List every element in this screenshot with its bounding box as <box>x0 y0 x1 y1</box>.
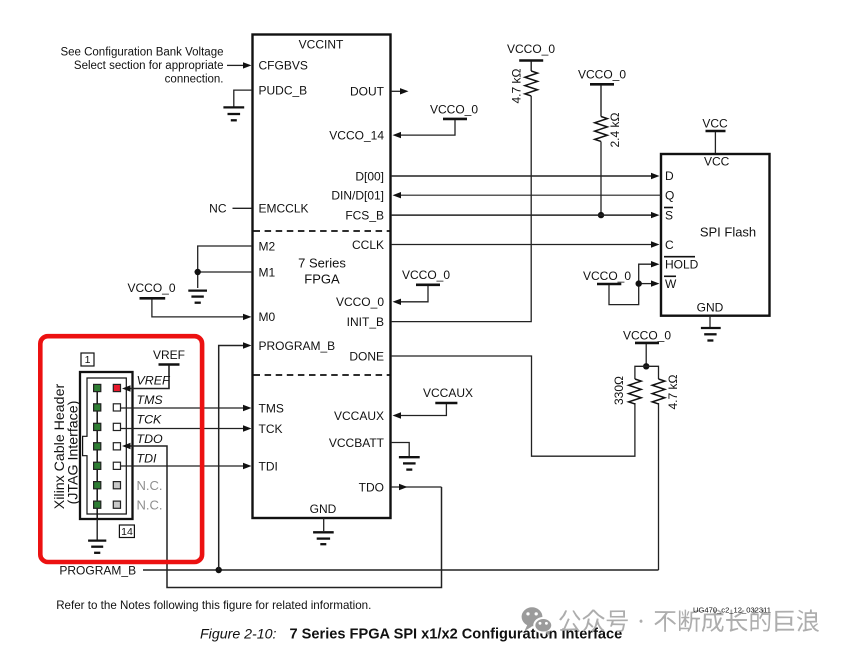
svg-text:S: S <box>665 208 673 222</box>
SPI Flash HOLD pin overbar <box>664 256 695 258</box>
JTAG italic labels <box>137 374 171 466</box>
wire DONE to 330 ohm resistor <box>391 356 635 456</box>
svg-text:VCC: VCC <box>702 116 728 130</box>
svg-text:VCCAUX: VCCAUX <box>334 409 384 423</box>
wire FCS_B to flash S <box>391 214 652 216</box>
svg-text:2.4 kΩ: 2.4 kΩ <box>608 112 622 147</box>
svg-text:C: C <box>665 238 674 252</box>
svg-text:VCCAUX: VCCAUX <box>423 386 473 400</box>
svg-text:connection.: connection. <box>165 74 224 86</box>
svg-text:See Configuration Bank Voltage: See Configuration Bank Voltage <box>60 46 223 58</box>
wire VCCO_0 to M0 pin <box>152 300 243 317</box>
junction PROGRAM_B <box>216 567 222 573</box>
wire TCK to FPGA <box>121 428 244 430</box>
watermark WeChat icon <box>522 607 553 636</box>
wire R1 down to INIT_B <box>391 96 531 322</box>
pin 14 marker box <box>119 525 134 538</box>
svg-text:UG470_c2_12_032311: UG470_c2_12_032311 <box>693 606 771 615</box>
svg-text:VCCO_0: VCCO_0 <box>507 42 555 56</box>
wire VCCO_0 to VCCO_14 pin <box>399 120 455 135</box>
wire TDO down/left/up to header <box>129 446 442 588</box>
wire CFGBVS arrow <box>227 64 243 66</box>
svg-text:TDI: TDI <box>259 460 278 474</box>
JTAG header inner outline with key notch <box>83 378 127 514</box>
ground at M1/M2 <box>188 291 207 303</box>
svg-text:VCC: VCC <box>704 155 730 169</box>
wire TMS to FPGA <box>121 407 244 409</box>
red JTAG highlight box <box>40 336 202 562</box>
JTAG pin TMS square <box>113 404 120 411</box>
svg-text:PROGRAM_B: PROGRAM_B <box>259 339 336 353</box>
watermark text 公众号·不断成长的巨浪 <box>559 609 819 632</box>
resistor R4 4.7 kOhm (PROGRAM_B pull-up) <box>652 379 665 404</box>
svg-text:4.7 kΩ: 4.7 kΩ <box>510 68 524 103</box>
junction W wire <box>636 280 642 286</box>
FPGA labels <box>259 38 385 516</box>
svg-text:1: 1 <box>85 354 91 366</box>
wire M2 <box>198 246 252 288</box>
svg-text:VCCO_0: VCCO_0 <box>430 102 478 116</box>
svg-text:D[00]: D[00] <box>355 169 384 183</box>
svg-text:VCCO_14: VCCO_14 <box>329 128 384 142</box>
wire PUDC_B to ground <box>234 90 252 106</box>
ground at flash <box>701 328 721 341</box>
SPI Flash U2 block outline <box>661 154 770 316</box>
svg-text:TCK: TCK <box>259 422 283 436</box>
svg-text:CCLK: CCLK <box>352 238 384 252</box>
wire DIN/D[01] from flash Q <box>399 194 661 196</box>
SPI Flash W pin overbar <box>664 275 676 277</box>
svg-text:TMS: TMS <box>137 393 164 407</box>
wire VCC stem <box>714 132 716 153</box>
ground at PUDC_B <box>223 107 244 120</box>
svg-text:M1: M1 <box>259 265 276 279</box>
FPGA U1 block outline <box>253 35 391 519</box>
svg-text:14: 14 <box>121 526 133 538</box>
svg-text:VCCINT: VCCINT <box>299 38 344 52</box>
resistor R3 330 Ohm (DONE pull-up) <box>629 379 642 404</box>
wire junction up to PROGRAM_B pin <box>219 346 243 571</box>
ground at VCCBATT <box>399 457 420 469</box>
svg-text:PROGRAM_B: PROGRAM_B <box>59 564 136 578</box>
wire FPGA GND stem <box>323 518 325 531</box>
svg-text:VCCO_0: VCCO_0 <box>336 295 384 309</box>
junction pull-up pair <box>643 363 649 369</box>
JTAG left column green pins <box>94 384 101 508</box>
svg-text:DONE: DONE <box>349 349 384 363</box>
svg-text:Select section for appropriate: Select section for appropriate <box>74 60 224 72</box>
svg-text:FCS_B: FCS_B <box>345 209 384 223</box>
wire VREF to red pin <box>129 366 169 389</box>
svg-text:VREF: VREF <box>137 374 171 388</box>
wire flash GND stem <box>709 316 711 327</box>
JTAG header outer outline <box>80 372 133 519</box>
JTAG pin VREF (red) <box>113 384 120 391</box>
svg-text:7 Series: 7 Series <box>298 255 346 270</box>
svg-text:GND: GND <box>310 502 337 516</box>
wire W branch <box>639 283 652 285</box>
wire VCCBATT to ground <box>391 443 409 457</box>
wire TDI to FPGA <box>121 465 244 467</box>
svg-text:D: D <box>665 169 674 183</box>
svg-text:N.C.: N.C. <box>137 478 163 493</box>
ground at JTAG header <box>88 541 106 553</box>
svg-text:PUDC_B: PUDC_B <box>259 84 308 98</box>
wire VCCO_0 stem to junction <box>645 344 647 366</box>
svg-text:TDO: TDO <box>359 480 384 494</box>
svg-text:W: W <box>665 277 677 291</box>
JTAG header ground stem <box>96 519 98 540</box>
svg-text:CFGBVS: CFGBVS <box>259 59 308 73</box>
wire CCLK to flash C <box>391 244 652 246</box>
wire VCCO_0 to W and HOLD <box>609 264 652 304</box>
svg-text:VREF: VREF <box>153 348 185 362</box>
svg-text:Refer to the Notes following t: Refer to the Notes following this figure… <box>56 599 371 612</box>
svg-text:EMCCLK: EMCCLK <box>259 202 309 216</box>
wire DOUT output arrow <box>391 90 401 92</box>
JTAG pin TCK square <box>113 423 120 430</box>
wire VCCO_0 into pin <box>399 286 428 302</box>
svg-text:VCCO_0: VCCO_0 <box>583 269 631 283</box>
svg-text:INIT_B: INIT_B <box>347 315 384 329</box>
svg-text:HOLD: HOLD <box>665 257 699 271</box>
JTAG left column wire <box>96 388 98 519</box>
svg-text:Figure 2-10:: Figure 2-10: <box>200 626 277 642</box>
annotation: CFGBVS note text <box>60 46 223 85</box>
svg-text:DOUT: DOUT <box>350 85 385 99</box>
JTAG pin TDI square <box>113 462 120 469</box>
svg-text:N.C.: N.C. <box>137 497 163 512</box>
FPGA internal section dashed divider 1 <box>254 230 390 232</box>
wire R2 down to FCS_B wire <box>600 142 602 216</box>
svg-text:DIN/D[01]: DIN/D[01] <box>331 189 384 203</box>
svg-text:4.7 kΩ: 4.7 kΩ <box>666 374 680 409</box>
svg-text:M0: M0 <box>259 310 276 324</box>
FPGA internal section dashed divider 2 <box>254 374 390 376</box>
svg-text:SPI Flash: SPI Flash <box>700 224 756 239</box>
svg-text:GND: GND <box>697 301 724 315</box>
svg-text:TDO: TDO <box>137 432 164 446</box>
svg-text:TCK: TCK <box>137 413 163 427</box>
JTAG pin TDO square <box>113 443 120 450</box>
svg-text:VCCO_0: VCCO_0 <box>623 329 671 343</box>
junction on FCS_B wire <box>598 212 604 218</box>
JTAG pin NC2 square <box>113 501 120 508</box>
svg-text:VCCO_0: VCCO_0 <box>402 268 450 282</box>
wire M1 <box>198 271 252 273</box>
JTAG pin NC1 square <box>113 482 120 489</box>
svg-text:M2: M2 <box>259 239 276 253</box>
svg-text:TDI: TDI <box>137 452 158 466</box>
svg-text:VCCBATT: VCCBATT <box>329 436 385 450</box>
wire TDO output with arrow <box>391 486 442 488</box>
ground at FPGA <box>313 532 334 544</box>
wire junction to both resistors <box>635 366 659 379</box>
wire D[00] to flash D <box>391 175 652 177</box>
svg-text:NC: NC <box>209 202 227 216</box>
SPI Flash labels <box>665 155 756 315</box>
svg-text:(JTAG Interface): (JTAG Interface) <box>65 401 81 505</box>
svg-text:VCCO_0: VCCO_0 <box>578 67 626 81</box>
svg-text:VCCO_0: VCCO_0 <box>127 281 175 295</box>
svg-text:330Ω: 330Ω <box>612 376 626 405</box>
wire VCCAUX into pin <box>399 404 446 416</box>
pin 1 marker box <box>81 353 94 366</box>
junction M1/M2 <box>195 269 201 275</box>
svg-text:FPGA: FPGA <box>304 271 340 286</box>
svg-text:Q: Q <box>665 189 674 203</box>
svg-text:TMS: TMS <box>259 401 284 415</box>
SPI Flash S pin overbar <box>664 207 673 209</box>
wire R4 down to PROGRAM_B net <box>658 403 660 570</box>
